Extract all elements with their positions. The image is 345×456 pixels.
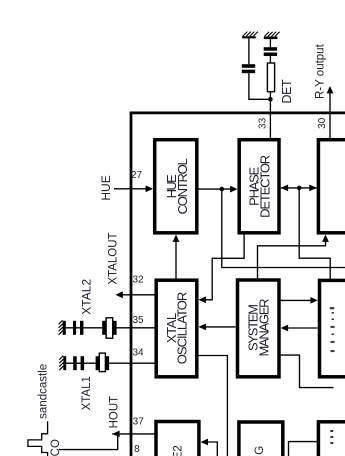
svg-text:35: 35 (132, 315, 144, 326)
svg-text:34: 34 (132, 348, 144, 359)
svg-text:XTAL1: XTAL1 (81, 376, 93, 410)
svg-text:37: 37 (133, 417, 145, 428)
svg-text:VCO: VCO (50, 439, 62, 456)
svg-text:sandcastle: sandcastle (38, 364, 50, 419)
svg-text:E2: E2 (172, 445, 184, 456)
svg-text:R-Y output: R-Y output (314, 43, 326, 99)
svg-text:XTALOUT: XTALOUT (108, 232, 120, 284)
svg-text:HUE: HUE (99, 175, 113, 200)
svg-text:DET: DET (280, 79, 294, 104)
svg-text:27: 27 (131, 170, 143, 181)
svg-text:8: 8 (134, 444, 140, 455)
svg-text:XTAL2: XTAL2 (79, 279, 93, 315)
svg-text:G: G (254, 446, 266, 455)
svg-text:30: 30 (317, 117, 328, 129)
svg-text:33: 33 (257, 117, 268, 129)
svg-text:32: 32 (132, 274, 144, 285)
svg-text:SYSTEMMANAGER: SYSTEMMANAGER (246, 299, 272, 357)
svg-text:HOUT: HOUT (108, 396, 120, 429)
